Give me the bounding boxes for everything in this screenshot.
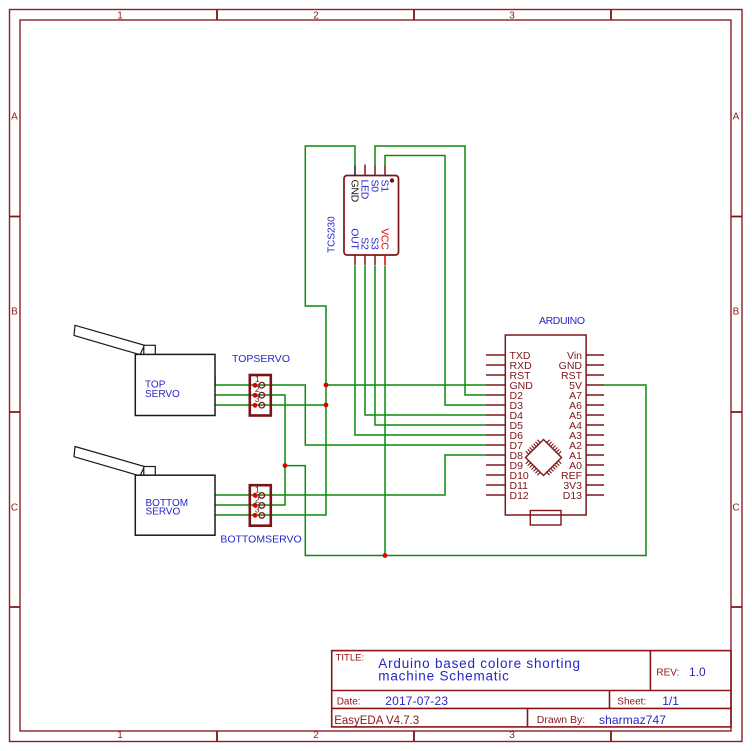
svg-text:TCS230: TCS230 [327, 216, 338, 253]
TCS230 pin S1 (top) [384, 166, 386, 176]
svg-text:ARDUINO: ARDUINO [539, 315, 585, 327]
svg-text:TOPSERVO: TOPSERVO [232, 353, 290, 365]
svg-text:A: A [11, 112, 18, 123]
svg-text:C: C [732, 503, 739, 514]
ARDUINO body [505, 335, 586, 515]
svg-text:B: B [733, 307, 740, 318]
ARDUINO left pin D11 [486, 484, 505, 486]
title block Sheet column divider [609, 691, 611, 709]
ARDUINO left pin D12 [486, 494, 505, 496]
ARDUINO right pin RST [586, 374, 604, 376]
ARDUINO MCU chip diamond [526, 440, 562, 476]
ARDUINO right pin Vin [586, 354, 604, 356]
wire VCC drop: TCS230 VCC pin down to bottom rail [384, 266, 386, 556]
ARDUINO right pin 3V3 [586, 484, 604, 486]
ARDUINO right pin A5 [586, 414, 604, 416]
svg-text:SERVO: SERVO [145, 389, 180, 400]
svg-text:B: B [11, 307, 18, 318]
BOTTOMSERVO pin 2 pad circle [259, 503, 265, 509]
svg-text:S1: S1 [378, 180, 390, 193]
BOTTOM SERVO body [135, 475, 215, 535]
wire BOTTOMSERVO pin 1 to D8 [215, 455, 486, 495]
junction BOTTOMSERVO pin 3 [253, 513, 258, 518]
frame column ticks bottom [217, 731, 611, 742]
wire GND net branch to ARDUINO GND pin [326, 384, 486, 386]
ARDUINO right pin GND [586, 364, 604, 366]
junction TOPSERVO pin 2 [253, 393, 258, 398]
ARDUINO left pin D9 [486, 464, 505, 466]
TOPSERVO pin 1 pad circle [259, 382, 265, 388]
ARDUINO right pin A3 [586, 434, 604, 436]
wire S2 to D4 [365, 266, 486, 415]
svg-text:1: 1 [117, 730, 123, 741]
ARDUINO left pin GND [486, 384, 505, 386]
TCS230 pin VCC (bottom) [384, 255, 386, 266]
wire OUT to D6 [355, 266, 486, 435]
BOTTOMSERVO pin 1 pad circle [259, 493, 265, 499]
wire S1 to D3 [385, 156, 486, 406]
svg-text:BOTTOMSERVO: BOTTOMSERVO [220, 534, 301, 546]
TOP SERVO horn arm [74, 325, 145, 354]
connector TOPSERVO body [250, 375, 271, 416]
svg-text:REV:: REV: [656, 668, 679, 679]
wire TOP SERVO stub jog at body edge [214, 375, 216, 385]
junction GND net at ARDUINO GND row [324, 383, 329, 388]
title block outline [332, 651, 731, 727]
ARDUINO MCU chip legs [526, 440, 561, 475]
TOP SERVO body [135, 354, 215, 415]
title block REV column divider [649, 651, 651, 691]
svg-text:1/1: 1/1 [662, 694, 679, 708]
junction BOTTOMSERVO pin 1 [253, 493, 258, 498]
svg-text:SERVO: SERVO [146, 507, 181, 518]
svg-text:1: 1 [255, 484, 260, 494]
svg-text:D13: D13 [563, 490, 582, 502]
ARDUINO right pin A4 [586, 424, 604, 426]
svg-text:EasyEDA V4.7.3: EasyEDA V4.7.3 [334, 715, 419, 727]
TCS230 pin LED (top) [364, 165, 366, 176]
wire TOPSERVO pin 1 to D7 [215, 385, 486, 445]
svg-text:A: A [733, 112, 740, 123]
svg-text:C: C [11, 503, 18, 514]
ARDUINO right pin A2 [586, 444, 604, 446]
frame row ticks right [731, 217, 742, 608]
svg-text:sharmaz747: sharmaz747 [599, 713, 666, 727]
TCS230 polarity dot [390, 178, 394, 182]
ARDUINO left pin D4 [486, 414, 505, 416]
title block Drawn By column divider [527, 708, 529, 727]
TCS230 pin GND (top) [354, 166, 356, 176]
ARDUINO left pin D10 [486, 474, 505, 476]
svg-text:Date:: Date: [337, 697, 361, 708]
ARDUINO right pin A1 [586, 454, 604, 456]
ARDUINO left pin D8 [486, 454, 505, 456]
frame row ticks left [10, 217, 20, 608]
svg-text:2: 2 [313, 730, 319, 741]
ARDUINO left pin D3 [486, 404, 505, 406]
ARDUINO left pin D2 [486, 394, 505, 396]
ARDUINO right pin A0 [586, 464, 604, 466]
frame column ticks top [217, 10, 611, 20]
svg-text:machine Schematic: machine Schematic [378, 669, 509, 684]
svg-text:Drawn By:: Drawn By: [537, 714, 585, 726]
svg-text:3: 3 [255, 504, 260, 514]
junction TOPSERVO pin 3 [253, 403, 258, 408]
ARDUINO right pin REF [586, 474, 604, 476]
TCS230 pin OUT (bottom) [354, 255, 356, 266]
ARDUINO left pin D7 [486, 444, 505, 446]
wire 5V net servo power column TOPSERVO pin 2 to BOTTOMSERVO pin 2 [215, 395, 285, 505]
BOTTOM SERVO horn arm [74, 447, 145, 476]
wire 5V net: ARDUINO 5V pin right, down, along bottom rail, up to servo power column [285, 385, 646, 556]
svg-text:3: 3 [255, 394, 260, 404]
junction 5V net at servo power column [283, 463, 288, 468]
ARDUINO right pin A7 [586, 394, 604, 396]
wire GND net branch TOPSERVO pin 3 row [215, 404, 326, 406]
ARDUINO left pin RXD [486, 364, 505, 366]
TOPSERVO pin 3 pad circle [259, 402, 265, 408]
svg-text:1.0: 1.0 [689, 665, 706, 679]
svg-text:TITLE:: TITLE: [336, 653, 365, 664]
TCS230 pin S2 (bottom) [364, 255, 366, 266]
svg-text:2: 2 [313, 11, 319, 22]
sensor U? TCS230 body [344, 176, 399, 256]
ARDUINO right pin A6 [586, 404, 604, 406]
ARDUINO right pin D13 [586, 494, 604, 496]
svg-text:3: 3 [509, 730, 515, 741]
svg-text:VCC: VCC [378, 228, 390, 250]
junction GND net at TOPSERVO pin 3 row [324, 403, 329, 408]
wire S0 to D2 [375, 146, 486, 395]
ARDUINO left pin TXD [486, 354, 505, 356]
BOTTOMSERVO pin 3 pad circle [259, 513, 265, 519]
svg-text:3: 3 [509, 11, 515, 22]
svg-text:Sheet:: Sheet: [617, 697, 646, 708]
TCS230 pin S3 (bottom) [374, 255, 376, 266]
svg-text:D12: D12 [510, 490, 529, 502]
TOP SERVO horn hub tab [144, 345, 156, 355]
svg-text:1: 1 [117, 11, 123, 22]
junction BOTTOMSERVO pin 2 [253, 503, 258, 508]
junction VCC at bottom rail [383, 553, 388, 558]
title block row divider 1 [332, 690, 731, 692]
ARDUINO right pin 5V [586, 384, 604, 386]
ARDUINO left pin D5 [486, 424, 505, 426]
svg-text:2: 2 [255, 494, 260, 504]
svg-text:1: 1 [255, 374, 260, 384]
connector BOTTOMSERVO body [250, 485, 271, 526]
title block row divider 2 [332, 707, 731, 709]
ARDUINO left pin D6 [486, 434, 505, 436]
svg-text:2: 2 [255, 384, 260, 394]
wire S3 to D5 [375, 266, 486, 425]
svg-text:2017-07-23: 2017-07-23 [385, 694, 448, 708]
junction TOPSERVO pin 1 [253, 383, 258, 388]
TOPSERVO pin 2 pad circle [259, 392, 265, 398]
TCS230 pin S0 (top) [374, 166, 376, 176]
ARDUINO left pin RST [486, 374, 505, 376]
ARDUINO crystal rectangle [530, 511, 561, 526]
wire GND net: TCS230 GND pin down-left-down to junctions and BOTTOMSERVO pin 3 [215, 146, 355, 515]
BOTTOM SERVO horn hub tab [144, 467, 156, 477]
